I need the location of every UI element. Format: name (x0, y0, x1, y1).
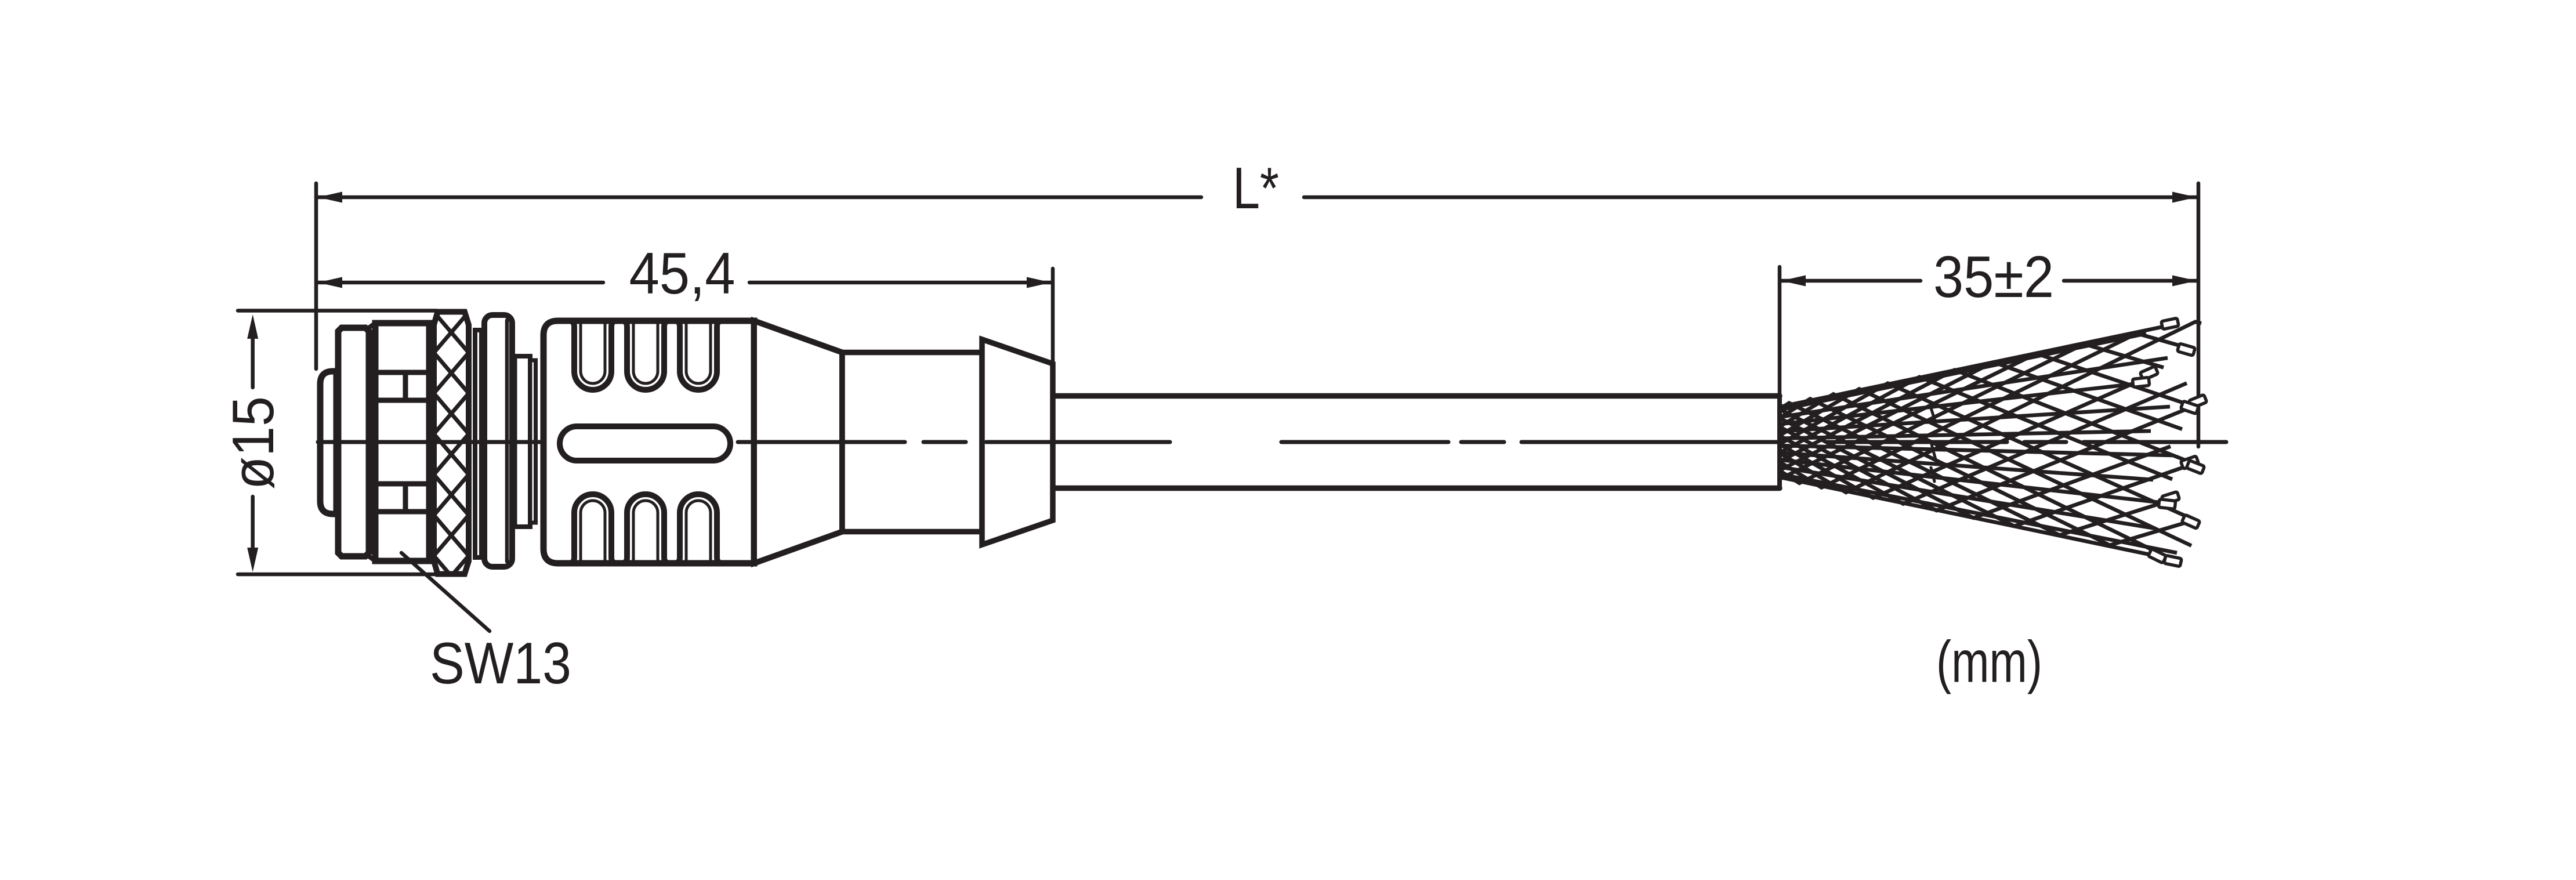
grip body (544, 321, 754, 563)
dimension line 45,4 left segment (318, 281, 603, 285)
grip slot (560, 426, 730, 461)
rib slot top 3 (674, 321, 723, 390)
coupling nut facet line top lower (375, 398, 429, 403)
dimension line L* right segment (1304, 195, 2197, 200)
dimension line 35±2 right segment (2064, 279, 2197, 283)
coupling nut facet line bottom upper (375, 481, 429, 487)
gland neck (515, 356, 531, 527)
rib slot bottom 2 (621, 494, 670, 563)
braid mid ticks (1930, 406, 1936, 481)
extension line 45,4 right (connector rear) (1051, 269, 1055, 362)
dimension line ø15 lower segment (251, 497, 255, 548)
dimension line L* left segment (318, 195, 1201, 200)
arrow L* right (2172, 192, 2197, 203)
extension line left (connector tip) (314, 183, 318, 369)
svg-text:45,4: 45,4 (629, 241, 736, 306)
dimension line ø15 upper segment (251, 339, 255, 388)
coupling nut rear barrel (338, 328, 369, 556)
rib slot bottom 1 (568, 494, 617, 563)
cable bushing bell (982, 339, 1053, 545)
braid wire end caps (2180, 456, 2198, 469)
knurled ring (434, 271, 469, 637)
coupling nut facet line bottom lower (375, 509, 429, 515)
extension line 35 left (jacket end) (1778, 267, 1782, 393)
extension line diameter bottom (238, 573, 437, 577)
shield braid mesh (1778, 322, 2205, 561)
washer inner edge (505, 320, 509, 562)
rib slot bottom 3 (674, 494, 723, 563)
arrow 35±2 left (1781, 276, 1806, 287)
svg-text:SW13: SW13 (430, 631, 571, 696)
coupling nut facet divider bottom (403, 484, 408, 512)
extension line right (cable stripped end) (2197, 183, 2201, 447)
arrow L* left (318, 192, 342, 203)
dimension line 35±2 left segment (1781, 279, 1921, 283)
dimension line 45,4 right segment (749, 281, 1051, 285)
svg-text:(mm): (mm) (1936, 630, 2042, 695)
arrow ø15 down (247, 548, 258, 572)
retaining ring (475, 330, 481, 557)
gland neck ring (530, 360, 536, 523)
washer (484, 315, 512, 567)
strain relief cone (754, 321, 842, 563)
svg-text:35±2: 35±2 (1933, 245, 2054, 310)
arrow 45,4 left (318, 277, 342, 288)
arrow ø15 up (247, 314, 258, 339)
leader line SW13 (401, 553, 490, 631)
rib slot top 1 (568, 321, 617, 390)
cable jacket end (1777, 396, 1782, 488)
transition chamfer bottom (369, 556, 375, 561)
cable jacket bottom (1053, 486, 1780, 491)
coupling nut facet line top upper (375, 370, 429, 375)
svg-text:ø15: ø15 (221, 396, 286, 490)
rib slot top 2 (621, 321, 670, 390)
arrow 35±2 right (2172, 276, 2197, 287)
coupling nut (375, 323, 429, 561)
centerline (dash-dot axis) (318, 440, 2226, 444)
arrow 45,4 right (1027, 277, 1051, 288)
cable jacket top (1053, 393, 1780, 399)
svg-text:L*: L* (1233, 156, 1279, 221)
coupling nut facet divider top (403, 372, 408, 400)
transition chamfer top (369, 323, 375, 328)
mating face tip (320, 371, 336, 514)
cable sleeve (842, 353, 982, 532)
extension line diameter top (238, 309, 437, 313)
